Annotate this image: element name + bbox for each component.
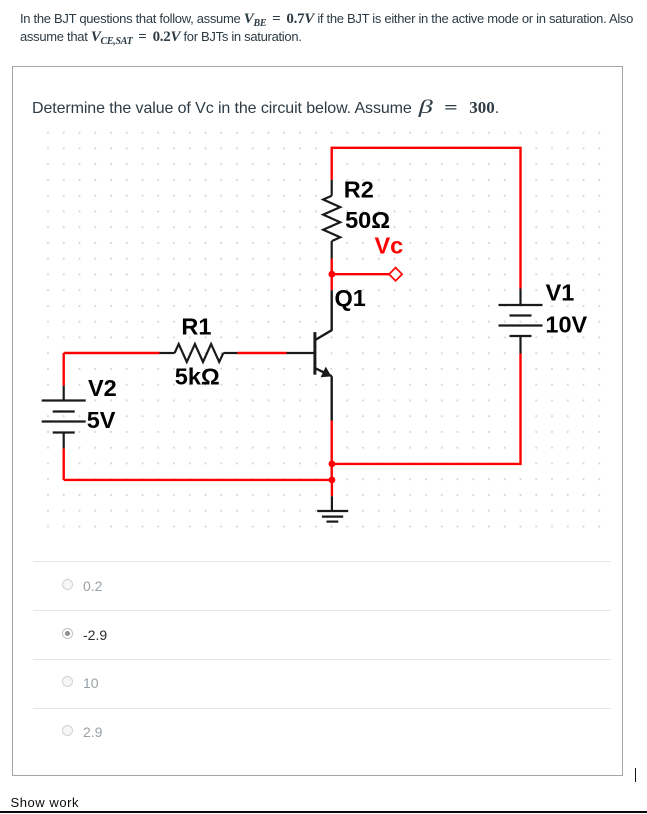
svg-text:Q1: Q1 — [335, 285, 366, 311]
svg-text:R2: R2 — [344, 177, 374, 203]
svg-text:V2: V2 — [88, 375, 117, 401]
svg-text:10V: 10V — [545, 312, 587, 338]
svg-text:5kΩ: 5kΩ — [175, 363, 220, 389]
svg-text:Vc: Vc — [375, 232, 404, 258]
svg-text:R1: R1 — [181, 314, 211, 340]
svg-text:5V: 5V — [87, 407, 116, 433]
svg-text:50Ω: 50Ω — [345, 207, 390, 233]
svg-text:V1: V1 — [546, 280, 575, 306]
